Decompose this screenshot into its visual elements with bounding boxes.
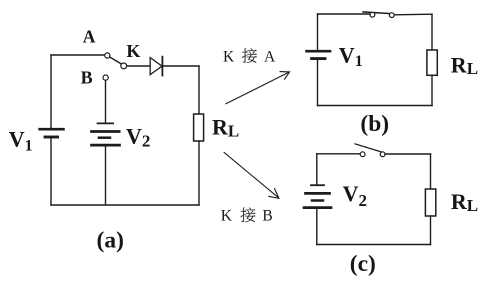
wire: (b) right vertical below resistor xyxy=(431,75,433,105)
wire: (a) top horizontal from left corner to contact A xyxy=(51,54,104,56)
wire: (c) left vertical above battery V2 xyxy=(316,154,318,185)
wire: (b) left vertical above battery V1 xyxy=(317,14,319,50)
svg-text:(a): (a) xyxy=(97,228,124,254)
wire: (b) bottom horizontal xyxy=(318,105,433,107)
battery V2 plate 3 (short) xyxy=(99,136,110,139)
wire: (c) right vertical below resistor xyxy=(430,216,432,245)
svg-text:K: K xyxy=(221,208,233,225)
svg-text:A: A xyxy=(264,48,276,65)
switch K pivot circle xyxy=(121,63,127,69)
switch (b) closed lever xyxy=(363,12,390,14)
wire: (c) top horizontal, right of switch xyxy=(385,153,430,155)
wire: (b) top horizontal, left of switch xyxy=(318,13,371,15)
wire: (a) middle vertical from battery V2 to bottom wire xyxy=(105,146,107,205)
lower arrow (K to B case) xyxy=(224,152,279,198)
wire: (a) bottom horizontal xyxy=(51,204,199,206)
switch (b) left contact circle xyxy=(370,12,375,17)
battery V1 long plate (positive) xyxy=(40,128,64,131)
wire: (b) top horizontal, right of switch xyxy=(394,13,432,16)
wire: (a) left vertical, bottom segment below battery V1 xyxy=(50,138,52,205)
battery V2 (c) plate 2 (long) xyxy=(306,192,330,195)
resistor RL rectangle of circuit (a) xyxy=(194,114,204,141)
wire: (c) left vertical below battery V2 xyxy=(316,209,318,245)
switch contact A terminal circle xyxy=(105,53,110,58)
switch (b) right contact circle xyxy=(389,13,394,18)
battery V2 plate 2 (long) xyxy=(92,130,120,133)
wire: (b) right vertical above resistor xyxy=(431,14,433,50)
wire: (a) right vertical from corner down to resistor top xyxy=(198,66,200,114)
battery V2 (c) plate 1 (short top) xyxy=(311,184,324,186)
wire: (c) top horizontal, left of switch xyxy=(317,153,360,155)
svg-text:A: A xyxy=(83,27,96,47)
resistor RL rectangle of circuit (b) xyxy=(427,50,437,75)
battery V1 (b) long plate xyxy=(307,50,330,53)
wire: (c) right vertical above resistor xyxy=(430,154,432,189)
switch (c) left contact circle xyxy=(360,152,365,157)
switch (c) right contact circle xyxy=(380,152,385,157)
battery V1 short plate (negative) xyxy=(45,136,58,139)
battery V2 (c) plate 4 (long bottom) xyxy=(304,206,331,209)
diode D triangle (anode) xyxy=(150,58,162,75)
wire: (b) left vertical below battery V1 xyxy=(317,60,319,106)
battery V2 plate 4 (long bottom) xyxy=(92,144,120,147)
switch contact B terminal circle xyxy=(103,75,108,80)
wire: (c) bottom horizontal xyxy=(317,244,431,246)
diode D cathode bar xyxy=(161,57,163,76)
svg-text:(c): (c) xyxy=(350,251,376,277)
wire: (a) middle vertical from contact B down to battery V2 xyxy=(105,80,107,122)
battery V2 (c) plate 3 (short) xyxy=(312,199,323,202)
resistor RL rectangle of circuit (c) xyxy=(425,189,435,216)
svg-text:B: B xyxy=(262,208,272,225)
wire: (a) left vertical, top segment above battery V1 xyxy=(50,55,52,128)
svg-text:(b): (b) xyxy=(360,111,389,137)
switch K lever from contact A to pivot xyxy=(110,57,122,64)
svg-text:K: K xyxy=(126,41,140,61)
battery V1 (b) short plate xyxy=(312,57,325,60)
wire: (a) from switch pivot to diode anode xyxy=(127,65,150,67)
upper arrow (K to A case) xyxy=(226,72,290,104)
wire: (a) from diode cathode to top-right corner xyxy=(162,65,199,67)
svg-text:B: B xyxy=(81,67,93,87)
switch (c) open lever tilted up-left from right contact xyxy=(355,144,381,152)
battery V2 plate 1 (short top) xyxy=(98,122,114,124)
svg-text:K: K xyxy=(223,48,235,65)
wire: (a) right vertical from resistor bottom to bottom-right corner xyxy=(198,141,200,205)
